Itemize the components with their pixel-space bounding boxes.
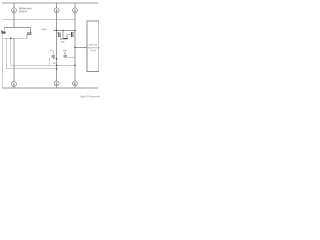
wire column x10.8 to upper bus — [11, 38, 75, 65]
svg-text:VBE: VBE — [61, 42, 65, 44]
wire tick x14 H2 to H3 — [13, 19, 15, 27]
svg-text:Circuit: Circuit — [19, 9, 27, 13]
wire output to box — [75, 47, 87, 49]
wire stub below I4 — [13, 86, 15, 88]
svg-text:Gain and: Gain and — [89, 44, 97, 46]
transistor TR bars — [27, 33, 31, 34]
wire I2 column down — [56, 13, 58, 31]
current source I6 — [73, 81, 78, 86]
wire column x14 to bottom current source — [13, 38, 15, 81]
wire Q3 column down — [56, 31, 58, 82]
wire Q6 source to bus — [49, 58, 51, 65]
wire rail node row — [2, 18, 75, 20]
label box text — [86, 44, 99, 52]
capacitor C1 plates — [64, 38, 69, 40]
wire I3 column down — [74, 13, 76, 31]
transistor Q3 bars — [58, 32, 60, 37]
wire I2 stub top — [56, 3, 58, 8]
wire source line H4 — [3, 37, 27, 39]
wire column x6.2 to lower bus — [6, 38, 56, 69]
current source I4 — [12, 82, 17, 87]
wire Q3 gate lead — [60, 37, 67, 39]
wire Q6 drain lead — [49, 51, 53, 55]
transistor Q7 bars — [63, 56, 67, 57]
wire Q7 to column — [67, 56, 75, 58]
wire left column x2.7 down to ground — [2, 38, 4, 88]
transistor TL bars — [1, 31, 6, 34]
svg-text:Circuit: Circuit — [90, 49, 96, 52]
transistor Q4 bars — [72, 32, 74, 37]
box output block — [87, 21, 99, 72]
transistor Q4 taps — [73, 32, 75, 37]
wire TR source drop — [26, 34, 28, 38]
current source I5 — [54, 81, 59, 86]
current source I2 — [54, 8, 59, 13]
wire V+ top rail — [2, 2, 98, 4]
wire I1 stub bottom — [13, 13, 15, 20]
wire mirror line H5 — [53, 30, 75, 32]
svg-text:VB: VB — [53, 63, 56, 65]
wire stub below I5 — [56, 86, 58, 88]
wire I3 stub top — [74, 3, 76, 8]
transistor Q6 bars — [52, 56, 56, 57]
background — [0, 0, 100, 100]
node branch from H5 to capacitor — [62, 31, 64, 39]
wire Q7 drain lead — [64, 51, 66, 55]
wire Q4 gate lead — [67, 35, 72, 39]
transistor Q3 taps — [57, 33, 59, 37]
ground bottom rail — [2, 87, 98, 89]
wire I1 stub top — [13, 3, 15, 8]
label Reference Circuit — [19, 6, 32, 13]
wire TL source drop — [2, 33, 4, 38]
svg-text:Compensation: Compensation — [86, 46, 99, 49]
svg-text:Copyright © 2014, Texas Instru: Copyright © 2014, Texas Instruments — [80, 95, 100, 98]
junction node dots — [10, 30, 76, 70]
wire Q4 column down — [74, 31, 76, 82]
wire stub below I6 — [74, 86, 76, 88]
wire gate line H3 — [4, 27, 30, 32]
wire Q6 to column — [53, 57, 56, 59]
current source I3 — [73, 8, 78, 13]
current source I1 — [12, 8, 17, 13]
